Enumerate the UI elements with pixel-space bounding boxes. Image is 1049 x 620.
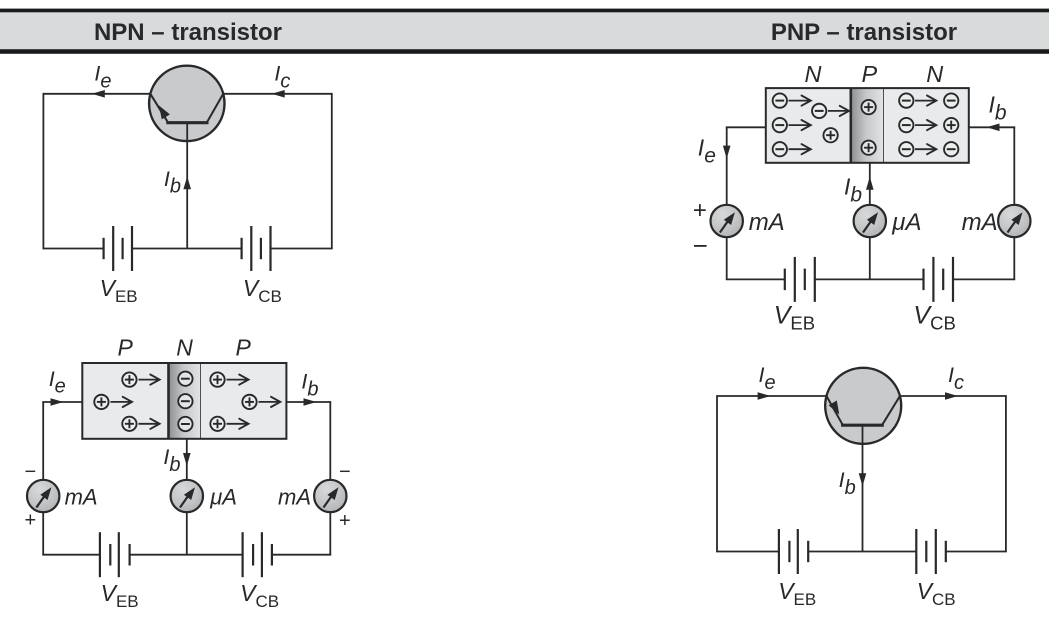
- carrier arrow row3 left-P: [139, 419, 160, 429]
- carrier arrow row1 right-P: [227, 375, 249, 385]
- battery V_CB (NPN bar circuit): [924, 257, 954, 302]
- arrow: current I_c direction (right): [945, 392, 958, 400]
- battery V_EB (NPN circuit): [104, 226, 132, 271]
- wire: left rail below meter (NPN bar): [726, 237, 728, 279]
- svg-text:N: N: [176, 335, 193, 361]
- label mA (NPN bar right): [962, 209, 998, 236]
- svg-text:VCB: VCB: [240, 580, 279, 611]
- label minus (below left meter): [693, 230, 708, 260]
- wire: PNP bottom middle segment: [808, 551, 916, 553]
- svg-text:mA: mA: [65, 485, 98, 510]
- block: N region middle (base, gradient): [169, 363, 201, 439]
- svg-text:VEB: VEB: [101, 580, 139, 611]
- label mA (right meter): [278, 485, 311, 510]
- svg-text:VEB: VEB: [778, 578, 816, 609]
- carrier: hole row2 right-P: [242, 395, 256, 409]
- wire: NPN top-right horizontal (collector lead): [223, 93, 332, 95]
- svg-text:Ib: Ib: [839, 468, 856, 499]
- carrier: hole row2 left-P: [94, 395, 108, 409]
- label I_b (PNP bar base): [163, 445, 180, 476]
- wire: NPN-bar bottom left segment: [726, 278, 785, 280]
- wire: NPN base lead vertical: [186, 123, 188, 249]
- label minus (above left meter): [25, 461, 37, 483]
- label I_b (right of PNP bar): [301, 370, 318, 401]
- label V_EB (NPN bar): [774, 302, 815, 334]
- svg-text:Ic: Ic: [948, 363, 964, 394]
- label microA (middle meter): [209, 485, 237, 510]
- arrow: current I_e direction (right): [758, 392, 771, 400]
- wire: PNP-bar bottom middle segment: [130, 554, 243, 556]
- svg-text:Ib: Ib: [844, 174, 862, 207]
- wire: PNP base lead vertical: [862, 425, 864, 551]
- transistor PNP emitter segment: [826, 396, 842, 425]
- carrier: electron row1 left-N: [773, 93, 787, 107]
- svg-text:−: −: [693, 230, 708, 260]
- svg-text:P: P: [861, 61, 877, 87]
- label I_e (PNP): [759, 363, 776, 394]
- carrier: hole top P: [861, 100, 875, 114]
- carrier: hole row1 left-P: [122, 372, 136, 386]
- label N (right region): [926, 61, 943, 87]
- svg-text:Ie: Ie: [94, 62, 111, 93]
- meter microA middle (NPN bar): [854, 205, 886, 237]
- carrier arrow row3 right-P: [227, 419, 249, 429]
- wire: right rail above meter: [329, 402, 331, 480]
- label V_CB (PNP): [917, 578, 956, 609]
- meter mA left (NPN bar): [711, 205, 743, 237]
- transistor PNP body circle: [825, 368, 901, 444]
- transistor PNP base bar: [841, 424, 884, 427]
- label I_b: [164, 167, 181, 198]
- carrier: electron stagger left-N: [812, 104, 826, 118]
- label mA (left meter): [65, 485, 98, 510]
- svg-text:mA: mA: [278, 485, 311, 510]
- carrier: electron row1 right-N a: [899, 93, 913, 107]
- label plus (below left meter): [25, 510, 37, 532]
- header title NPN - transistor: [94, 19, 282, 46]
- svg-text:Ib: Ib: [989, 91, 1007, 124]
- svg-text:+: +: [25, 510, 37, 532]
- svg-text:N: N: [805, 61, 822, 87]
- svg-text:Ib: Ib: [164, 167, 181, 198]
- carrier: electron row3 right-N a: [899, 142, 913, 156]
- block: P region right (collector): [201, 363, 287, 439]
- svg-text:+: +: [339, 510, 351, 532]
- carrier arrow row2 right-P: [259, 397, 281, 407]
- label I_b (right of NPN bar): [989, 91, 1007, 124]
- meter microA middle (microammeter): [171, 480, 203, 512]
- wire: PNP top-left horizontal (emitter lead): [717, 395, 826, 397]
- carrier: electron row1 right-N b: [944, 93, 958, 107]
- svg-text:NPN – transistor: NPN – transistor: [94, 19, 282, 46]
- arrow: current I_b direction (up): [183, 176, 191, 189]
- label I_c (PNP): [948, 363, 964, 394]
- label V_EB: [100, 275, 138, 306]
- wire: NPN bottom middle segment: [132, 248, 242, 250]
- header top rule: [0, 9, 1049, 13]
- svg-text:Ib: Ib: [301, 370, 318, 401]
- carrier arrow row2 left-P: [111, 397, 133, 407]
- wire: NPN left rail vertical: [42, 93, 44, 249]
- battery V_CB (NPN circuit): [242, 226, 271, 271]
- meter mA right (NPN bar): [998, 205, 1030, 237]
- label N (left region): [805, 61, 822, 87]
- wire: right rail above meter (NPN bar): [1013, 127, 1015, 205]
- label I_e (NPN bar): [698, 134, 716, 167]
- carrier: electron bot N: [178, 417, 192, 431]
- svg-text:VCB: VCB: [913, 302, 955, 334]
- label P (left region): [118, 335, 134, 361]
- carrier arrow row1 left-N: [789, 96, 811, 106]
- svg-text:mA: mA: [749, 209, 785, 236]
- label I_b (NPN bar base): [844, 174, 862, 207]
- wire: NPN right rail vertical: [331, 93, 333, 249]
- wire: base lead down from N region: [186, 439, 188, 480]
- label V_CB: [243, 275, 282, 306]
- wire: PNP-bar right horizontal (base-out): [286, 401, 331, 403]
- carrier arrow row1 right-N: [915, 96, 936, 106]
- wire: NPN-bar right horizontal (base-out): [969, 126, 1015, 128]
- header gray band: [0, 12, 1049, 49]
- wire: PNP left rail vertical: [716, 395, 718, 551]
- wire: NPN top-left horizontal (emitter lead): [43, 93, 150, 95]
- svg-text:+: +: [693, 197, 707, 224]
- carrier: electron mid N: [178, 394, 192, 408]
- arrow: current I_e into block (right): [51, 398, 64, 406]
- carrier arrow row1 left-P: [139, 375, 160, 385]
- wire: PNP-bar left horizontal (emitter): [42, 401, 82, 403]
- svg-text:−: −: [339, 461, 351, 483]
- transistor NPN base bar: [166, 121, 208, 124]
- carrier: electron row2 left-N: [773, 118, 787, 132]
- label microA (NPN bar): [891, 209, 921, 236]
- battery V_EB (NPN bar circuit): [785, 257, 815, 302]
- label N (middle region): [176, 335, 193, 361]
- transistor PNP collector segment: [882, 396, 900, 425]
- battery V_EB (PNP circuit): [779, 529, 808, 574]
- wire: left rail above meter: [42, 402, 44, 480]
- transistor PNP emitter arrow (points inward, PNP): [829, 401, 840, 415]
- arrow: current I_b direction (down): [859, 473, 867, 486]
- svg-text:Ic: Ic: [274, 62, 290, 93]
- label V_EB (PNP bar): [101, 580, 139, 611]
- block outline (NPN bar): [766, 88, 969, 163]
- label minus (above right meter): [339, 461, 351, 483]
- carrier: electron row3 right-N b: [944, 142, 958, 156]
- wire: PNP bottom left segment: [716, 551, 779, 553]
- svg-text:N: N: [926, 61, 943, 87]
- wire: base rail below middle meter (NPN bar): [869, 237, 871, 279]
- carrier: hole in left-N: [823, 128, 837, 142]
- wire: NPN bottom right segment: [271, 248, 333, 250]
- label P (middle region): [861, 61, 877, 87]
- svg-text:mA: mA: [962, 209, 998, 236]
- svg-text:−: −: [25, 461, 37, 483]
- carrier: electron row2 right-N a: [899, 118, 913, 132]
- block: P region middle (base, gradient): [851, 88, 884, 163]
- carrier: hole bottom P: [861, 141, 875, 155]
- carrier: hole row1 right-P: [210, 372, 224, 386]
- carrier: hole row2 right-N b: [944, 118, 958, 132]
- svg-text:VCB: VCB: [917, 578, 956, 609]
- svg-text:P: P: [236, 335, 252, 361]
- meter mA left (milliammeter): [27, 480, 59, 512]
- wire: left rail above meter (NPN bar): [726, 127, 728, 205]
- label V_CB (NPN bar): [913, 302, 955, 334]
- carrier arrow stagger left-N: [828, 106, 849, 116]
- wire: NPN-bar bottom right segment: [953, 278, 1015, 280]
- arrow: current I_b down (PNP bar): [183, 453, 191, 466]
- svg-text:Ie: Ie: [698, 134, 716, 167]
- arrow: current I_c direction (left): [272, 90, 285, 98]
- label I_e: [94, 62, 111, 93]
- arrow: current I_b up (NPN bar): [866, 177, 874, 190]
- arrow: current I_e direction (left): [92, 90, 105, 98]
- label I_c: [274, 62, 290, 93]
- svg-text:VEB: VEB: [774, 302, 815, 334]
- transistor NPN body circle: [149, 66, 224, 141]
- wire: PNP top-right horizontal (collector lead): [900, 395, 1006, 397]
- wire: base lead down from P region: [869, 163, 871, 205]
- carrier arrow row3 left-N: [789, 144, 811, 154]
- transistor NPN collector segment: [207, 94, 224, 123]
- block: N region right (collector, NPN bar): [884, 88, 969, 163]
- svg-text:VCB: VCB: [243, 275, 282, 306]
- header title PNP - transistor: [771, 19, 957, 46]
- transistor NPN emitter arrow (points outward, NPN): [159, 105, 170, 119]
- header bottom rule: [0, 49, 1049, 54]
- wire: NPN-bar left horizontal (emitter): [726, 126, 766, 128]
- label plus (above left meter): [693, 197, 707, 224]
- wire: base rail below middle meter: [186, 512, 188, 555]
- svg-text:μA: μA: [209, 485, 237, 510]
- label I_e (PNP bar): [49, 367, 66, 398]
- block outline (PNP bar): [82, 363, 286, 439]
- meter mA right (milliammeter): [314, 480, 346, 512]
- wire: right rail below meter (NPN bar): [1013, 237, 1015, 279]
- arrow: current I_b out of block (right): [304, 398, 317, 406]
- wire: PNP right rail vertical: [1005, 395, 1007, 551]
- transistor NPN emitter segment: [150, 94, 168, 123]
- wire: NPN-bar bottom middle segment: [815, 278, 924, 280]
- svg-text:Ie: Ie: [759, 363, 776, 394]
- wire: PNP-bar bottom left segment: [42, 554, 100, 556]
- carrier arrow row2 left-N: [789, 120, 811, 130]
- carrier arrow row3 right-N: [915, 144, 936, 154]
- label V_CB (PNP bar): [240, 580, 279, 611]
- arrow: current I_e down: [723, 146, 731, 159]
- battery V_EB (PNP bar circuit): [100, 532, 130, 577]
- block: P region left (emitter): [82, 363, 168, 439]
- label I_b (PNP): [839, 468, 856, 499]
- svg-text:PNP – transistor: PNP – transistor: [771, 19, 957, 46]
- label V_EB (PNP): [778, 578, 816, 609]
- svg-text:μA: μA: [891, 209, 921, 236]
- svg-text:P: P: [118, 335, 134, 361]
- label mA (NPN bar left): [749, 209, 785, 236]
- svg-text:Ib: Ib: [163, 445, 180, 476]
- block: N region left (emitter, NPN bar): [766, 88, 851, 163]
- label plus (below right meter): [339, 510, 351, 532]
- label P (right region): [236, 335, 252, 361]
- wire: PNP-bar bottom right segment: [272, 554, 331, 556]
- wire: NPN bottom left segment: [43, 248, 104, 250]
- battery V_CB (PNP bar circuit): [243, 532, 272, 577]
- carrier arrow row2 right-N: [915, 120, 936, 130]
- carrier: electron top N: [178, 372, 192, 386]
- battery V_CB (PNP circuit): [916, 529, 946, 574]
- carrier: hole row3 left-P: [122, 417, 136, 431]
- arrow: current I_b toward block (left): [987, 124, 1000, 132]
- svg-text:VEB: VEB: [100, 275, 138, 306]
- carrier: electron row3 left-N: [773, 142, 787, 156]
- wire: PNP bottom right segment: [946, 551, 1007, 553]
- wire: right rail below meter: [329, 512, 331, 555]
- wire: left rail below meter: [42, 512, 44, 555]
- carrier: hole row3 right-P: [210, 417, 224, 431]
- svg-text:Ie: Ie: [49, 367, 66, 398]
